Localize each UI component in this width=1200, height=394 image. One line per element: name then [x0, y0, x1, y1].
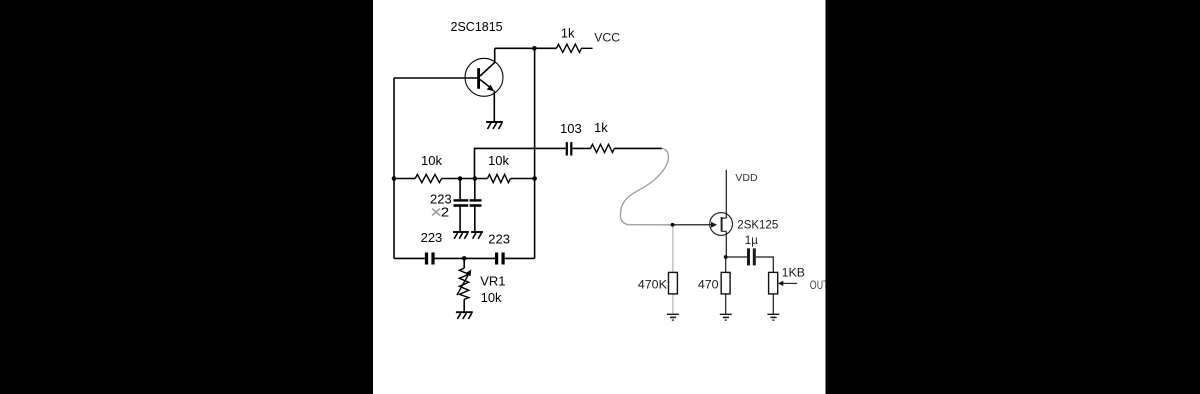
node dot cap b [473, 176, 478, 181]
ground (1KB) 3-bar [767, 314, 779, 320]
wire after 10k right [510, 178, 534, 180]
svg-text:223: 223 [488, 231, 510, 246]
potentiometer 1KB box [769, 272, 778, 294]
svg-text:VR1: VR1 [480, 273, 505, 288]
svg-text:1µ: 1µ [745, 235, 758, 247]
junction dots [392, 46, 537, 261]
capacitor 223 (bottom left) plates [425, 253, 435, 265]
svg-text:10k: 10k [488, 153, 509, 168]
label x2 [432, 209, 440, 216]
node dot bottom VR1 [462, 256, 467, 261]
svg-text:2SC1815: 2SC1815 [451, 20, 503, 34]
svg-text:1k: 1k [594, 120, 608, 135]
wire left vertical [393, 78, 395, 258]
svg-text:10k: 10k [421, 153, 442, 168]
svg-text:1KB: 1KB [782, 265, 805, 279]
wire squiggle (gray) [620, 148, 672, 224]
wire 1KB bottom [772, 294, 774, 314]
node dot source junction [724, 255, 728, 259]
wire source down [725, 231, 727, 257]
wire source to cap 1u [726, 256, 747, 258]
transistor Q1 emitter arrow [480, 80, 494, 92]
wire VR1 bottom [463, 299, 465, 311]
potentiometer VR1 arrow [457, 270, 472, 296]
transistor U2 2SK125 (JFET) [710, 213, 733, 236]
ground (emitter) [486, 122, 503, 129]
ground (470K) 3-bar [667, 314, 679, 320]
wire 103 feed horizontal y=148.4 [475, 148, 566, 178]
wire between bottom caps [435, 257, 495, 259]
wire gate (dot to FET) [673, 224, 712, 226]
node dot cap a [458, 176, 463, 181]
svg-text:1k: 1k [561, 26, 575, 41]
ground (VR1) [456, 312, 473, 319]
svg-text:2SK125: 2SK125 [737, 220, 778, 232]
resistor 10k (left) [415, 174, 442, 182]
wire bottom rail y=258.4 [394, 257, 425, 259]
wire 470 bottom [725, 294, 727, 314]
black side masks [0, 0, 373, 394]
wire collector vertical [480, 48, 495, 76]
wire cap223a drop [459, 179, 461, 200]
svg-text:223: 223 [421, 230, 443, 245]
wire cap103 to 1k [573, 147, 591, 149]
capacitor 103 plates [566, 142, 573, 155]
wire 470 top [725, 257, 727, 272]
wire cap223b to ground [474, 207, 476, 231]
svg-text:470: 470 [698, 278, 719, 292]
wire drain (VDD) [725, 170, 727, 218]
node dot VCC junction [532, 46, 537, 51]
potentiometer VR1 zigzag [459, 268, 469, 299]
node dot left rail [392, 176, 397, 181]
resistor 1k (to VCC) [556, 44, 592, 52]
wire 470K drop (gray) [672, 225, 674, 314]
node dot gate junction [671, 223, 675, 227]
transistor U2 gate arrow [711, 222, 717, 228]
resistor 10k (right) [488, 174, 511, 182]
capacitor 1u plates [747, 248, 756, 265]
transistor Q1 base bar [477, 68, 480, 89]
wire right vertical x=534.6 [534, 48, 536, 258]
capacitor 223 (bottom right) plates [495, 253, 505, 265]
svg-text:10k: 10k [481, 290, 502, 305]
resistor 470 box [721, 272, 730, 294]
resistor 1k (series) [591, 144, 615, 152]
svg-text:VCC: VCC [594, 31, 620, 45]
wire top rail collector to VCC resistor [495, 47, 557, 49]
wire cap223b drop [474, 179, 476, 200]
wire base horizontal to 2SC1815 [394, 77, 478, 79]
wire cap 1u to 1KB [756, 257, 774, 272]
wire cap223a to ground [459, 207, 461, 231]
wire between resistors [442, 178, 488, 180]
wire 1k to squiggle [614, 147, 662, 149]
resistor 470K box [669, 272, 678, 294]
svg-text:2: 2 [441, 205, 449, 220]
ground (cap223b) [471, 232, 483, 239]
svg-text:470K: 470K [638, 278, 668, 292]
wire emitter vertical [493, 91, 495, 122]
wire bottom right [505, 257, 535, 259]
ground (cap223a) [453, 232, 469, 239]
svg-text:VDD: VDD [735, 172, 758, 184]
transistor Q1 2SC1815 circle [465, 58, 503, 96]
node dot right rail [532, 176, 537, 181]
capacitor 223 x2 (pair) plates [454, 199, 482, 207]
ground (470) 3-bar [720, 314, 732, 320]
svg-text:103: 103 [560, 121, 582, 136]
potentiometer 1KB wiper arrow [778, 281, 797, 286]
wire mid rail y=178.5 [394, 178, 415, 180]
wire VR1 top [463, 258, 465, 268]
